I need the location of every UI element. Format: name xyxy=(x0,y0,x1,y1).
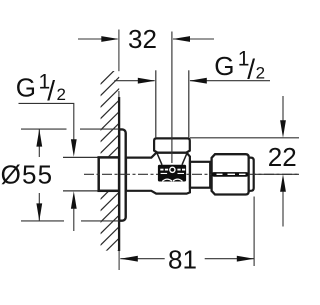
svg-text:G: G xyxy=(214,51,234,81)
wall extension line upper (32 dim left extension) xyxy=(118,30,120,72)
valve body silhouette xyxy=(126,153,190,194)
dim 81 bottom xyxy=(120,197,254,267)
riser compression nut xyxy=(154,138,190,152)
svg-text:2: 2 xyxy=(57,85,66,104)
horizontal center axis xyxy=(84,173,299,175)
concealed supply pipe thin lines xyxy=(63,156,99,158)
svg-text:/: / xyxy=(47,75,55,106)
svg-text:2: 2 xyxy=(256,64,265,83)
dim G1/2 top right xyxy=(114,80,270,82)
svg-text:Ø55: Ø55 xyxy=(1,160,54,190)
svg-text:22: 22 xyxy=(268,142,297,172)
block white circle xyxy=(169,167,176,174)
wall hatching xyxy=(100,66,119,269)
knob end cap xyxy=(249,158,254,191)
block white dashes xyxy=(160,169,163,171)
riser vertical axis / 32 dim right extension xyxy=(171,32,173,164)
knob main xyxy=(212,154,249,194)
funnel V lines xyxy=(157,152,162,165)
valve cartridge block xyxy=(158,165,186,182)
inlet male thread (in-wall) xyxy=(99,157,119,190)
svg-text:/: / xyxy=(247,53,255,84)
svg-text:G: G xyxy=(16,73,36,103)
riser pipe / G1/2 extension lines xyxy=(155,70,157,138)
svg-text:81: 81 xyxy=(168,244,197,274)
wall flange (rosette) xyxy=(119,129,126,220)
dim 32 xyxy=(78,38,214,40)
knob slot xyxy=(212,172,249,177)
dim 22 right xyxy=(190,96,299,227)
block bottom scallops xyxy=(162,179,182,181)
wall extension line lower (81 dim left extension) xyxy=(118,251,120,270)
stem between body and knob xyxy=(190,162,210,188)
wall line (thick) xyxy=(118,97,120,251)
dim diameter 55 xyxy=(21,129,119,221)
svg-text:32: 32 xyxy=(128,24,157,54)
